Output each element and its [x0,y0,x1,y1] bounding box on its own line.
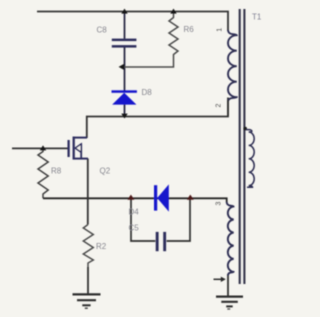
svg-text:C8: C8 [97,26,108,35]
svg-text:D8: D8 [142,88,153,97]
svg-text:3: 3 [216,202,223,206]
svg-text:T1: T1 [252,12,262,21]
svg-text:Q2: Q2 [100,166,111,175]
svg-text:R6: R6 [184,25,195,34]
svg-text:1: 1 [217,28,224,32]
svg-text:2: 2 [216,103,223,107]
svg-text:C5: C5 [129,223,140,232]
svg-text:R8: R8 [51,166,62,175]
svg-text:D4: D4 [129,207,140,216]
svg-text:R2: R2 [96,242,107,251]
